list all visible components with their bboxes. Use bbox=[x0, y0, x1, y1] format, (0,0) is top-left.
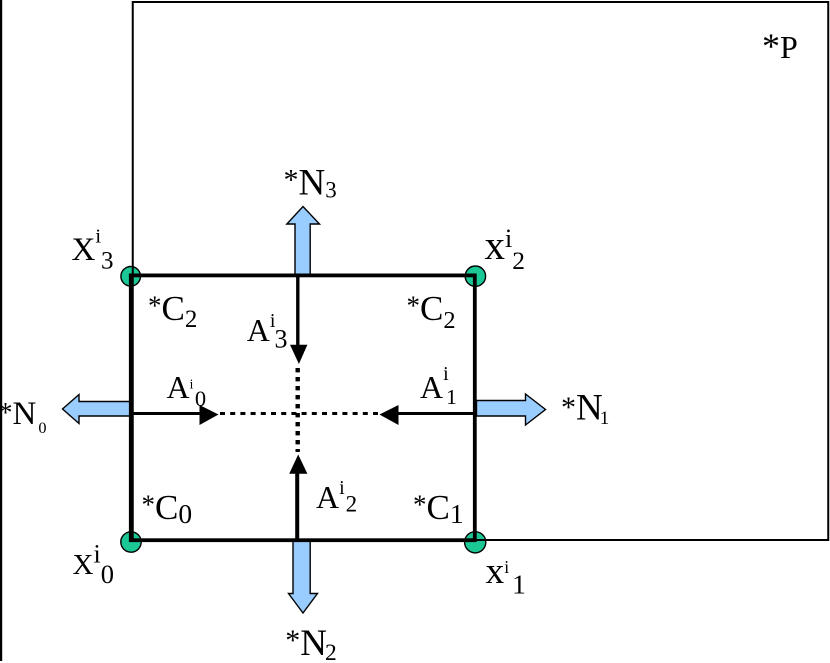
arrowhead A0 (pointing right) bbox=[200, 405, 219, 425]
wire A1 solid segment (from right edge midpoint leftward) bbox=[399, 412, 475, 415]
normal arrow N0 (blue, pointing left from left edge) bbox=[63, 395, 132, 424]
svg-text:*N1: *N1 bbox=[561, 388, 609, 430]
arrowhead A3 (pointing down) bbox=[290, 345, 307, 364]
normal arrow N3 (blue, pointing up from top edge) bbox=[287, 207, 320, 277]
arrowhead A1 (pointing left) bbox=[380, 405, 399, 425]
arrowhead A2 (pointing up) bbox=[289, 455, 307, 474]
normal arrow N1 (blue, pointing right from right edge) bbox=[477, 394, 546, 425]
wire vertical dotted segment through centroid bbox=[296, 368, 300, 452]
node X1 dot (bottom-right corner vertex) bbox=[465, 532, 486, 553]
svg-text:*P: *P bbox=[762, 26, 798, 66]
patch rectangle P bbox=[133, 2, 829, 540]
node X3 dot (top-left corner vertex) bbox=[121, 267, 141, 287]
wire horizontal dotted segment through centroid bbox=[220, 412, 379, 415]
left page border bbox=[0, 0, 2, 661]
normal arrow N2 (blue, pointing down from bottom edge) bbox=[289, 540, 318, 613]
cell rectangle (control volume) bbox=[131, 275, 475, 540]
node X0 dot (bottom-left corner vertex) bbox=[121, 532, 141, 552]
wire A3 solid segment (from top edge midpoint downward) bbox=[296, 277, 299, 346]
wire A2 solid segment (from bottom edge midpoint upward) bbox=[295, 473, 299, 539]
node X2 dot (top-right corner vertex) bbox=[465, 266, 485, 286]
wire A0 solid segment (from left edge midpoint rightward) bbox=[132, 412, 200, 415]
